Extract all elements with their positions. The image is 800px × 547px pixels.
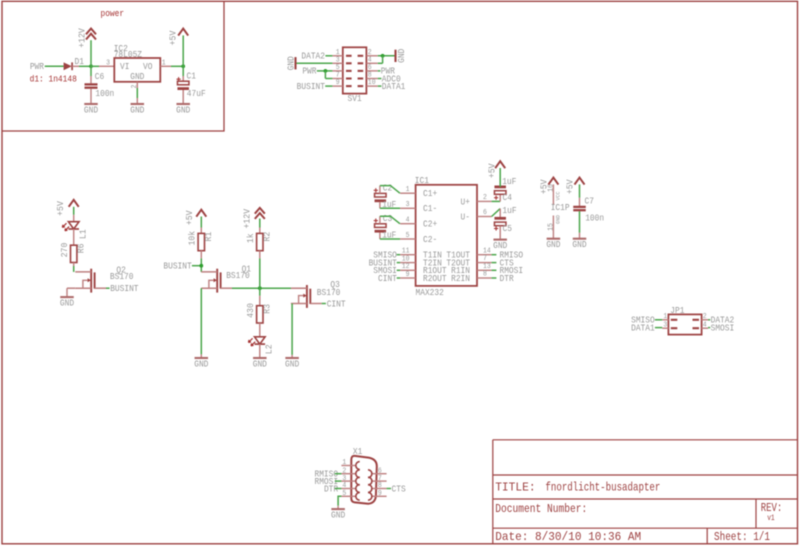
capacitor C7 100n [573, 206, 586, 208]
LED L1 [68, 222, 79, 229]
wire Q2 source to ground [67, 287, 75, 289]
X1 pin 8 [371, 488, 386, 490]
IC1 pin 10 [400, 262, 416, 264]
ground C1 [176, 103, 190, 105]
wire IC1 pin2 to C4 [492, 200, 501, 202]
net label DATA1 (SV1 pin10) [378, 85, 382, 87]
capacitor C4 1uF [499, 195, 501, 202]
capacitor C1 47uF [182, 66, 184, 76]
SV1 pin 5 lead [332, 70, 342, 72]
svg-text:GND: GND [331, 510, 345, 520]
svg-text:Document Number:: Document Number: [495, 502, 587, 516]
supply +5V arrow (C7) [575, 178, 585, 185]
svg-text:100n: 100n [585, 214, 604, 224]
wire C2 bottom to IC1 pin3 [379, 202, 381, 208]
svg-text:D1: D1 [75, 57, 84, 67]
net label BUSINT (Q2 gate) [106, 287, 110, 289]
svg-text:4: 4 [342, 482, 346, 490]
svg-text:U-: U- [461, 212, 470, 222]
wire R6 to Q2 drain [73, 263, 75, 267]
X1 pin 5 [341, 495, 356, 497]
wire SV1 pin3 to ground [297, 62, 333, 64]
svg-text:1: 1 [663, 313, 667, 321]
svg-text:1uF: 1uF [502, 206, 516, 216]
svg-text:GND: GND [176, 105, 190, 115]
svg-text:GND: GND [130, 105, 144, 115]
svg-text:C1-: C1- [423, 204, 437, 214]
wire L1 to R6 [73, 229, 75, 245]
svg-text:DTR: DTR [500, 274, 515, 284]
net label PWR (SV1 pin6) [378, 70, 381, 72]
svg-text:VO: VO [143, 62, 152, 72]
svg-text:5: 5 [406, 232, 410, 240]
svg-text:1k: 1k [246, 233, 256, 243]
svg-text:SMOSI: SMOSI [711, 323, 735, 333]
SV1 pin 1 lead [332, 55, 342, 57]
SV1 pin 3 lead [332, 62, 342, 64]
wire C7 to ground [579, 211, 581, 233]
svg-text:Date: 8/30/10 10:36 AM: Date: 8/30/10 10:36 AM [495, 530, 641, 544]
IC1 pin 8 [477, 277, 492, 279]
wire C3 top to IC1 pin4 [379, 216, 381, 224]
wire C3 bottom to IC1 pin5 [379, 233, 381, 239]
pin header JP1 [668, 314, 701, 334]
svg-text:1: 1 [162, 59, 166, 67]
net label DATA2 (JP1) [708, 319, 710, 321]
svg-text:+5V: +5V [168, 30, 178, 45]
svg-text:REV:: REV: [761, 501, 783, 515]
SV1 pin 8 lead [366, 78, 377, 80]
svg-text:GND: GND [493, 241, 507, 251]
IC1 pin 11 [400, 254, 416, 256]
svg-text:8: 8 [483, 271, 487, 279]
ground X1 [331, 508, 345, 510]
supply +5V arrow (C4) [495, 161, 505, 168]
svg-text:BUSINT: BUSINT [110, 284, 139, 294]
svg-text:L1: L1 [78, 229, 88, 239]
IC1 pin 5 [400, 238, 416, 240]
wire D1 to node [72, 65, 79, 67]
svg-text:R3: R3 [263, 304, 273, 314]
title block divider lines [493, 475, 798, 528]
net label CINT (Q3 gate) [322, 303, 326, 305]
svg-text:GND: GND [287, 56, 297, 70]
wire Q1 source to ground [200, 288, 202, 354]
svg-text:R6: R6 [77, 244, 87, 254]
net label CTS (X1 pin8) [387, 488, 391, 490]
wire R3 to L2 [259, 323, 261, 337]
svg-text:4: 4 [703, 321, 707, 329]
svg-text:TITLE:: TITLE: [495, 481, 536, 495]
transistor Q2 BS170 [90, 269, 92, 293]
junction BUSINT/R1 [199, 264, 203, 268]
svg-text:BS170: BS170 [317, 288, 341, 298]
JP1 pin 4 lead [702, 327, 709, 329]
svg-text:16: 16 [548, 184, 556, 192]
IC1 pin 14 [477, 254, 492, 256]
svg-text:CINT: CINT [378, 274, 397, 284]
IC1 pin 13 [477, 269, 492, 271]
svg-text:+5V: +5V [185, 210, 195, 225]
svg-text:BS170: BS170 [226, 271, 250, 281]
svg-text:GND: GND [546, 240, 560, 250]
voltage regulator IC2 [114, 58, 160, 82]
svg-text:GND: GND [194, 359, 208, 369]
title block frame [493, 440, 798, 544]
supply +5V arrow (L1) [69, 200, 79, 207]
IC1 pin 4 [400, 223, 416, 225]
svg-text:BS170: BS170 [110, 272, 134, 282]
wire SV1 pin2 to ground [378, 55, 395, 57]
svg-text:CINT: CINT [327, 299, 346, 309]
X1 pin 2 [341, 473, 356, 475]
ground symbol right of SV1 [394, 50, 396, 62]
SV1 pin 6 lead [366, 70, 377, 72]
svg-text:v1: v1 [767, 514, 775, 523]
IC1 pin 3 [400, 207, 416, 209]
power group box [2, 1, 224, 131]
wire +5V to C4 [499, 168, 501, 187]
wire node up to +5V [182, 35, 184, 66]
capacitor C3 1uF [374, 220, 378, 222]
svg-text:9: 9 [406, 271, 410, 279]
svg-text:2: 2 [703, 313, 707, 321]
svg-text:GND: GND [572, 240, 586, 250]
wire L2 to ground [259, 344, 261, 357]
wire R2 to INT node [259, 251, 261, 259]
svg-text:BUSINT: BUSINT [297, 82, 326, 92]
svg-text:C4: C4 [503, 193, 512, 203]
junction INT node [258, 286, 262, 290]
IC1 pin 6 [477, 216, 492, 218]
IC1 pin 12 [400, 269, 416, 271]
svg-text:5: 5 [342, 490, 346, 498]
X1 pin 1 [341, 465, 356, 467]
LED L2 [255, 337, 266, 344]
svg-text:IC1P: IC1P [551, 203, 570, 213]
SV1 pin 4 lead [366, 62, 377, 64]
svg-text:DATA2: DATA2 [301, 52, 325, 62]
wire +5V to R1 [200, 217, 202, 228]
wire INT node to R3 [259, 288, 261, 296]
svg-text:3: 3 [663, 321, 667, 329]
svg-text:8: 8 [378, 482, 382, 490]
X1 pin 4 [341, 488, 356, 490]
svg-text:3: 3 [406, 201, 410, 209]
svg-text:+5V: +5V [488, 163, 498, 178]
svg-text:C2-: C2- [423, 235, 437, 245]
svg-text:GND: GND [555, 214, 562, 224]
svg-text:430: 430 [246, 303, 256, 318]
svg-text:BUSINT: BUSINT [163, 262, 192, 272]
svg-text:L2: L2 [265, 344, 275, 354]
X1 pin 6 [371, 473, 386, 475]
JP1 pin 3 lead [662, 327, 668, 329]
supply +12V arrow [86, 29, 96, 35]
ground C5 [493, 239, 507, 241]
svg-text:C1: C1 [187, 72, 196, 82]
SV1 pin 2 lead [366, 55, 377, 57]
svg-text:Sheet: 1/1: Sheet: 1/1 [714, 530, 770, 544]
svg-text:+12V: +12V [243, 208, 253, 228]
svg-text:+5V: +5V [56, 201, 66, 216]
svg-text:11: 11 [402, 248, 410, 256]
svg-text:270: 270 [60, 243, 70, 258]
IC1 power pins IC1P [548, 178, 558, 185]
resistor R6 270 [71, 245, 77, 262]
X1 pin 7 [371, 480, 386, 482]
node +12V junction [89, 64, 93, 68]
svg-text:DTR: DTR [324, 484, 339, 494]
svg-text:1: 1 [406, 186, 410, 194]
wire PWR to D1 [45, 65, 64, 67]
ground IC1P [547, 238, 561, 240]
SV1 pin 10 lead [366, 85, 377, 87]
svg-text:+5V: +5V [565, 179, 575, 194]
supply +5V arrow (power) [178, 29, 188, 36]
svg-text:1uF: 1uF [502, 177, 516, 187]
svg-text:10k: 10k [187, 231, 197, 246]
svg-text:d1: 1n4148: d1: 1n4148 [30, 75, 77, 85]
svg-text:U+: U+ [461, 197, 470, 207]
svg-text:power: power [101, 9, 125, 19]
svg-text:DATA1: DATA1 [631, 323, 655, 333]
svg-text:78L05Z: 78L05Z [114, 50, 143, 60]
IC2 VO wire [160, 65, 171, 67]
supply +12V arrow (R2) [255, 208, 265, 214]
pin header SV1 [343, 47, 367, 93]
svg-text:MAX232: MAX232 [416, 288, 444, 298]
svg-text:JP1: JP1 [670, 306, 684, 316]
wire C5 to ground [499, 226, 501, 239]
wire +5V to C7 [579, 184, 581, 197]
wire C2 top to IC1 pin1 [379, 186, 381, 194]
wire +12V to R2 [259, 219, 261, 228]
svg-text:PWR: PWR [30, 62, 45, 72]
capacitor C6 [90, 66, 92, 76]
svg-text:100n: 100n [95, 89, 114, 99]
svg-text:C6: C6 [95, 72, 104, 82]
ground Q1 [195, 357, 209, 359]
IC1 pin 7 [477, 262, 492, 264]
ground Q2 [60, 296, 74, 298]
svg-text:C2+: C2+ [423, 220, 437, 230]
resistor R1 10k [198, 233, 204, 250]
IC1 pin 9 [400, 277, 416, 279]
net label ADC0 (SV1 pin8) [378, 78, 382, 80]
wire Q3 source to ground [291, 304, 293, 355]
net labels right of IC1 [492, 254, 497, 256]
svg-text:R2IN: R2IN [451, 274, 470, 284]
svg-text:1: 1 [342, 459, 346, 467]
svg-text:GND: GND [130, 72, 144, 82]
wire R1 to BUSINT junction [200, 251, 202, 259]
svg-text:GND: GND [253, 359, 267, 369]
IC1 pin 2 [477, 200, 492, 202]
svg-text:10: 10 [368, 79, 376, 87]
svg-text:R2OUT: R2OUT [423, 274, 447, 284]
svg-text:C1+: C1+ [423, 189, 437, 199]
capacitor C2 1uF [374, 189, 378, 191]
capacitor C5 1uF [499, 209, 501, 219]
svg-text:fnordlicht-busadapter: fnordlicht-busadapter [545, 481, 660, 495]
svg-text:X1: X1 [353, 447, 362, 457]
net label SMOSI (JP1) [708, 327, 710, 329]
junction PWR [324, 69, 328, 73]
svg-text:GND: GND [84, 105, 98, 115]
wire +5V to L1 [73, 207, 75, 215]
svg-text:GND: GND [285, 359, 299, 369]
ground symbol left of SV1 (pin3) [294, 57, 296, 69]
svg-text:GND: GND [397, 49, 407, 63]
wire SV1 pin4 up [378, 62, 383, 64]
svg-text:VI: VI [120, 62, 129, 72]
JP1 pin 1 lead [662, 319, 668, 321]
net labels left of IC1 [397, 254, 400, 256]
svg-text:2: 2 [483, 194, 487, 202]
IC1 pin 1 [400, 192, 416, 194]
svg-text:CTS: CTS [392, 484, 406, 494]
svg-text:4: 4 [406, 217, 410, 225]
svg-text:IC1: IC1 [415, 176, 429, 186]
svg-text:PWR: PWR [302, 67, 317, 77]
resistor R2 1k [257, 233, 263, 250]
wire PWR to pin7 [324, 71, 326, 79]
IC IC1 MAX232 body [416, 185, 477, 286]
SV1 pin 7 lead [332, 78, 342, 80]
node +5V junction [181, 64, 185, 68]
svg-text:GND: GND [60, 298, 74, 308]
svg-text:C7: C7 [585, 197, 594, 207]
X1 pin 3 [341, 480, 356, 482]
ground Q3 [285, 357, 299, 359]
wire Q1 gate lead to INT node [232, 287, 292, 289]
svg-text:6: 6 [483, 209, 487, 217]
svg-text:C5: C5 [503, 224, 512, 234]
transistor Q1 BS170 [216, 269, 218, 293]
wire X1 pin5 to ground [338, 496, 341, 506]
ground C7 [573, 238, 587, 240]
svg-text:3: 3 [106, 59, 110, 67]
svg-text:9: 9 [336, 79, 340, 87]
wire node up to +12V [90, 40, 92, 66]
svg-text:14: 14 [483, 247, 491, 255]
svg-text:9: 9 [378, 490, 382, 498]
svg-text:R1: R1 [204, 232, 214, 242]
svg-text:+12V: +12V [77, 28, 87, 48]
supply +5V arrow (R1) [196, 210, 206, 217]
ground IC2 [131, 103, 145, 105]
JP1 pin 2 lead [702, 319, 709, 321]
svg-text:DATA1: DATA1 [382, 82, 406, 92]
resistor R3 430 [257, 306, 263, 323]
X1 pin 9 [371, 495, 386, 497]
svg-text:R2: R2 [263, 232, 273, 242]
svg-text:SV1: SV1 [348, 94, 362, 104]
wire node to IC2 VI [91, 65, 99, 67]
diode D1 [64, 62, 72, 70]
svg-text:47uF: 47uF [187, 89, 206, 99]
SV1 pin 9 lead [332, 85, 342, 87]
ground C6 [84, 103, 98, 105]
connector X1 body [351, 456, 377, 504]
junction pin2/pin4 [381, 54, 385, 58]
transistor Q3 BS170 [292, 287, 307, 289]
wire IC1 pin6 to C5 [492, 209, 501, 217]
ground L2 [253, 357, 266, 359]
svg-text:VCC: VCC [555, 191, 562, 201]
